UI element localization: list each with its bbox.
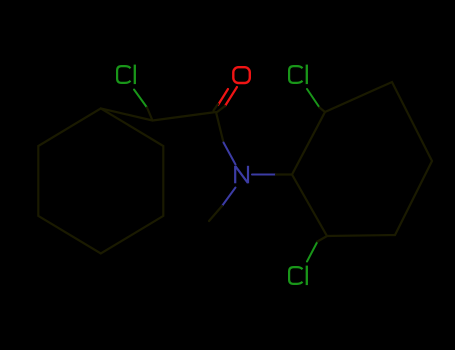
label Cl3 (chlorine): C glyph <box>289 266 307 286</box>
label Cl3: l glyph <box>306 266 308 286</box>
label Cl2 (chlorine): C glyph <box>289 65 307 85</box>
bond C2 to carbonyl C1 <box>153 112 217 121</box>
wire ring-top to alpha carbon C2 <box>101 108 153 120</box>
benzene ring (right, 2,6-dichlorophenyl) <box>292 82 432 236</box>
bond N to aryl ipso carbon, blue half <box>252 174 276 176</box>
bond ring C6' to Cl (chlorine Cl3), green half <box>307 242 318 262</box>
bond ring C2' to Cl (chlorine Cl2), green half <box>307 89 320 108</box>
bond N to methyl, blue half <box>222 188 236 207</box>
carbonyl double bond C1=O, carbon halves <box>217 106 226 113</box>
bond ring C2' to Cl (chlorine Cl2), carbon half <box>320 108 326 113</box>
bond ring C6' to Cl (chlorine Cl3), carbon half <box>318 236 328 242</box>
label Cl2: l glyph <box>306 65 308 85</box>
carbonyl double bond C1=O, red halves <box>225 87 237 106</box>
label Cl1: l glyph <box>134 65 136 85</box>
label N (amide nitrogen) <box>235 166 248 184</box>
cyclohexane ring (left) <box>38 108 163 253</box>
bond C1 to N, carbon half <box>216 112 224 143</box>
label O (carbonyl oxygen) <box>233 67 250 83</box>
bond N to aryl ipso carbon, carbon half <box>276 173 292 175</box>
bond N to methyl, carbon half <box>209 206 222 221</box>
label Cl1 (chlorine): C glyph <box>117 65 135 85</box>
bond C2 to Cl (chlorine Cl1), green half <box>134 90 147 108</box>
bond C1 to N, blue half <box>224 143 236 165</box>
bond C2 to Cl (chlorine Cl1), carbon half <box>147 108 153 121</box>
